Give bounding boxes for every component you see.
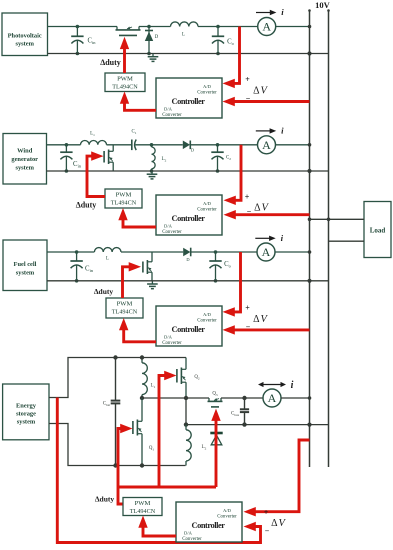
label - row1 xyxy=(246,94,251,103)
wire row1 top b xyxy=(139,26,171,28)
svg-text:TL494CN: TL494CN xyxy=(130,508,156,515)
wire row2 top b xyxy=(107,144,132,146)
capacitor Cin row3 xyxy=(70,250,82,282)
svg-text:Fuel cell: Fuel cell xyxy=(14,261,37,268)
ground row3 xyxy=(147,281,158,289)
ammeter A row3 xyxy=(257,243,275,261)
wire red row3 bus sense xyxy=(223,325,310,334)
svg-text:L: L xyxy=(182,33,185,38)
svg-text:D: D xyxy=(186,257,189,262)
svg-text:Cbus: Cbus xyxy=(231,412,240,417)
svg-text:Energy: Energy xyxy=(16,403,37,410)
wire row3 top xyxy=(47,251,94,253)
svg-text:Converter: Converter xyxy=(162,341,182,346)
wire red row4 battery sense xyxy=(57,398,260,543)
label 10V xyxy=(315,0,331,10)
transistor Q3 row4 xyxy=(208,398,223,407)
label Q2 row4 xyxy=(194,375,200,380)
svg-text:Q2: Q2 xyxy=(194,375,200,380)
wire red row1 gate drive xyxy=(120,37,129,73)
capacitor Cbat row4 xyxy=(111,355,121,467)
svg-text:A: A xyxy=(262,138,271,152)
svg-text:system: system xyxy=(17,419,36,426)
wire red row3 Vout sense xyxy=(223,252,241,317)
transistor Q2 row4 xyxy=(177,358,186,399)
diode D row1 xyxy=(145,25,153,56)
inductor L row1 xyxy=(171,22,199,27)
controller box row2 xyxy=(156,195,222,235)
wire red row2 bus sense xyxy=(224,210,310,219)
label L2 row2 xyxy=(162,157,167,162)
label Q1 row4 xyxy=(149,446,155,451)
transistor Q1 row4 xyxy=(133,398,144,468)
svg-text:ΔV: ΔV xyxy=(271,518,286,529)
label L2 row4 xyxy=(202,445,207,450)
inductor L2 row2 xyxy=(150,143,155,173)
wire row1 top c xyxy=(198,26,240,28)
wire row2 top xyxy=(47,144,81,146)
label C2 row2 xyxy=(226,156,231,161)
svg-text:−: − xyxy=(265,527,270,536)
svg-text:A/D: A/D xyxy=(223,508,232,513)
wire row4 mid rail b xyxy=(221,396,263,400)
wire row4 battery bottom xyxy=(49,424,186,466)
label D row1 xyxy=(155,35,159,40)
inductor L1 row2 xyxy=(81,140,107,144)
label Co row1 xyxy=(227,39,235,46)
svg-text:Δduty: Δduty xyxy=(76,201,97,210)
wire red row4 bus sense xyxy=(244,440,310,516)
wire row1 to ammeter xyxy=(240,26,258,28)
svg-text:Converter: Converter xyxy=(197,319,217,324)
svg-text:A/D: A/D xyxy=(203,312,212,317)
svg-text:D/A: D/A xyxy=(164,335,173,340)
photovoltaic system source box xyxy=(2,13,48,56)
svg-text:system: system xyxy=(16,270,35,277)
wire row2 to ammeter xyxy=(218,144,258,146)
transistor switch row1 (buck MOSFET) xyxy=(116,27,141,36)
load box U-LOAD xyxy=(364,202,391,258)
svg-text:−: − xyxy=(246,322,251,331)
bus bar + (10V) xyxy=(308,9,311,467)
controller box row4 xyxy=(176,502,242,542)
svg-text:Photovoltaic: Photovoltaic xyxy=(8,33,42,40)
label dV row1 xyxy=(253,86,268,97)
wind generator system source box xyxy=(3,134,47,185)
diode D row3 xyxy=(183,248,215,257)
label Cin row1 xyxy=(88,38,97,45)
svg-text:i: i xyxy=(291,380,294,391)
wire red row1 Vout sense xyxy=(223,27,240,89)
wire row3 to ammeter xyxy=(216,251,258,253)
ammeter A row1 xyxy=(258,18,276,36)
svg-text:Load: Load xyxy=(370,227,386,235)
PWM TL494CN box row3 xyxy=(106,298,143,318)
wire row2 top c xyxy=(152,144,183,146)
label duty row3 xyxy=(94,287,114,296)
wire row2 bottom rail xyxy=(47,169,329,173)
transistor MOSFET row2 xyxy=(104,145,113,171)
svg-text:Q1: Q1 xyxy=(149,446,155,451)
svg-text:Converter: Converter xyxy=(162,113,182,118)
wire row4 lower rail xyxy=(184,398,329,427)
label dV row3 xyxy=(253,314,268,325)
capacitor C2 row2 xyxy=(211,143,223,173)
svg-text:Converter: Converter xyxy=(197,91,217,96)
svg-text:Converter: Converter xyxy=(217,515,237,520)
inductor L1 row4 xyxy=(140,355,148,400)
capacitor Cin row1 xyxy=(71,25,83,56)
wire red row2 Vout sense xyxy=(224,145,242,205)
ground row2 xyxy=(147,171,158,179)
svg-text:Converter: Converter xyxy=(197,208,217,213)
current arrow i row2 xyxy=(256,126,284,136)
wire load top xyxy=(308,218,364,222)
ground row1 xyxy=(148,54,159,62)
wire red row4 gate bus xyxy=(118,486,216,489)
capacitor Cbus row4 xyxy=(240,398,249,427)
svg-text:Δduty: Δduty xyxy=(100,58,121,67)
wire row2 ammeter to bus xyxy=(276,143,312,147)
wire red row3 D/A to PWM xyxy=(119,318,156,342)
svg-text:−: − xyxy=(247,207,252,216)
label Cin row3 xyxy=(85,266,94,273)
label - row4 xyxy=(265,527,270,536)
fuel cell system source box xyxy=(3,240,47,291)
svg-text:A/D: A/D xyxy=(203,201,212,206)
svg-text:−: − xyxy=(246,94,251,103)
svg-text:A: A xyxy=(262,245,271,259)
svg-text:+: + xyxy=(245,193,250,202)
ammeter A row4 xyxy=(263,389,281,407)
svg-text:ΔV: ΔV xyxy=(253,314,268,325)
svg-text:L2: L2 xyxy=(162,157,167,162)
wire red row3 gate drive xyxy=(123,262,142,298)
label - row3 xyxy=(246,322,251,331)
wire red row1 D/A to PWM xyxy=(120,92,156,111)
svg-text:C2: C2 xyxy=(226,156,231,161)
svg-text:A: A xyxy=(268,391,277,405)
svg-text:C1: C1 xyxy=(132,130,137,135)
PWM TL494CN box row1 xyxy=(105,73,145,92)
svg-text:system: system xyxy=(15,165,34,172)
label dV row4 xyxy=(271,518,286,529)
label + row1 xyxy=(245,75,250,84)
svg-text:TL494CN: TL494CN xyxy=(111,200,137,207)
svg-text:A/D: A/D xyxy=(203,84,212,89)
label Co row3 xyxy=(224,261,232,268)
ammeter A row2 xyxy=(258,136,276,154)
wire row4 ammeter to bus xyxy=(281,396,311,400)
svg-text:+: + xyxy=(245,304,250,313)
label duty row2 xyxy=(76,201,97,210)
svg-text:PWM: PWM xyxy=(117,76,133,83)
svg-text:Cbat: Cbat xyxy=(103,402,111,407)
PWM TL494CN box row4 xyxy=(123,498,162,516)
wire row3 top b xyxy=(121,251,183,253)
svg-text:D/A: D/A xyxy=(164,224,173,229)
label Cin row2 xyxy=(73,161,82,168)
wire row1 bottom rail xyxy=(48,51,329,55)
svg-text:PWM: PWM xyxy=(135,500,151,507)
wire row4 mid rail xyxy=(142,396,209,400)
wire red row4 D/A to PWM xyxy=(138,516,176,537)
label - row2 xyxy=(247,207,252,216)
inductor L row3 xyxy=(94,248,121,252)
svg-text:PWM: PWM xyxy=(117,301,133,308)
label duty row1 xyxy=(100,58,121,67)
wire red row4 Q2 gate xyxy=(159,371,177,487)
svg-text:ΔV: ΔV xyxy=(254,203,269,214)
svg-text:Controller: Controller xyxy=(171,214,205,223)
svg-text:Converter: Converter xyxy=(162,230,182,235)
capacitor Co row3 xyxy=(209,250,221,282)
PWM TL494CN box row2 xyxy=(105,189,142,208)
wire red row4 Q3 gate xyxy=(211,409,220,487)
label Cbus row4 xyxy=(231,412,240,417)
label dV row2 xyxy=(254,203,269,214)
svg-text:D/A: D/A xyxy=(184,531,193,536)
wire row1 ammeter to bus xyxy=(276,25,312,29)
label + row3 xyxy=(245,304,250,313)
svg-text:storage: storage xyxy=(16,411,36,418)
label Cbat row4 xyxy=(103,402,111,407)
diode D row4 (in Q3 gate line) xyxy=(210,433,222,445)
transistor MOSFET row3 xyxy=(143,252,152,281)
svg-text:A: A xyxy=(262,20,271,34)
wire row3 ammeter to bus xyxy=(275,250,311,254)
svg-text:TL494CN: TL494CN xyxy=(112,84,138,91)
wire row4 battery top xyxy=(49,358,186,398)
svg-text:D: D xyxy=(155,35,159,40)
label L row1 xyxy=(182,33,185,38)
wire row3 bottom rail xyxy=(47,279,329,283)
svg-text:Controller: Controller xyxy=(191,521,225,530)
inductor L2 row4 xyxy=(186,425,191,466)
bus bar - (return) xyxy=(327,9,330,467)
svg-text:L1: L1 xyxy=(151,384,156,389)
capacitor Cin row2 xyxy=(60,143,72,173)
wire red row2 gate drive xyxy=(87,151,105,196)
svg-text:system: system xyxy=(15,41,34,48)
wire red row4 Q1 gate xyxy=(118,424,133,487)
svg-text:PWM: PWM xyxy=(116,192,132,199)
svg-text:+: + xyxy=(264,508,269,517)
svg-text:+: + xyxy=(245,75,250,84)
current arrow i row3 xyxy=(255,233,283,243)
label L1 row2 xyxy=(90,132,95,137)
svg-text:Controller: Controller xyxy=(171,97,205,106)
svg-text:10V: 10V xyxy=(315,0,331,10)
label D row3 xyxy=(186,257,189,262)
svg-text:Wind: Wind xyxy=(17,148,33,155)
label + row4 xyxy=(264,508,269,517)
label Q3 row4 xyxy=(212,392,218,397)
label L row3 xyxy=(106,257,109,262)
label C1 row2 xyxy=(132,130,137,135)
capacitor C1 row2 (series) xyxy=(132,140,152,151)
svg-text:TL494CN: TL494CN xyxy=(112,309,138,316)
svg-text:Δduty: Δduty xyxy=(95,495,115,504)
svg-text:Δduty: Δduty xyxy=(94,287,114,296)
svg-text:L: L xyxy=(106,257,109,262)
diode D row2 xyxy=(183,141,218,150)
label + row2 xyxy=(245,193,250,202)
wire red row4 PWM feed xyxy=(118,487,123,504)
svg-text:generator: generator xyxy=(11,156,38,163)
controller box row3 xyxy=(156,306,222,346)
current arrow i row1 xyxy=(256,7,284,17)
label duty row4 xyxy=(95,495,115,504)
svg-text:Q3: Q3 xyxy=(212,392,218,397)
svg-text:D: D xyxy=(191,148,194,153)
svg-text:L1: L1 xyxy=(90,132,95,137)
wire red row1 bus sense xyxy=(223,97,310,106)
svg-text:Controller: Controller xyxy=(171,325,205,334)
svg-text:Converter: Converter xyxy=(182,537,202,542)
energy storage system source box xyxy=(3,384,49,440)
label D row2 xyxy=(191,148,194,153)
wire red row2 D/A to PWM xyxy=(118,208,156,227)
capacitor Co row1 xyxy=(212,25,224,56)
current arrow i row4 (bidirectional) xyxy=(258,380,294,391)
svg-text:ΔV: ΔV xyxy=(253,86,268,97)
wire load bottom xyxy=(329,240,365,242)
controller box row1 xyxy=(156,78,222,118)
label L1 row4 xyxy=(151,384,156,389)
wire row1 top xyxy=(48,26,118,28)
svg-text:D/A: D/A xyxy=(164,107,173,112)
svg-text:L2: L2 xyxy=(202,445,207,450)
